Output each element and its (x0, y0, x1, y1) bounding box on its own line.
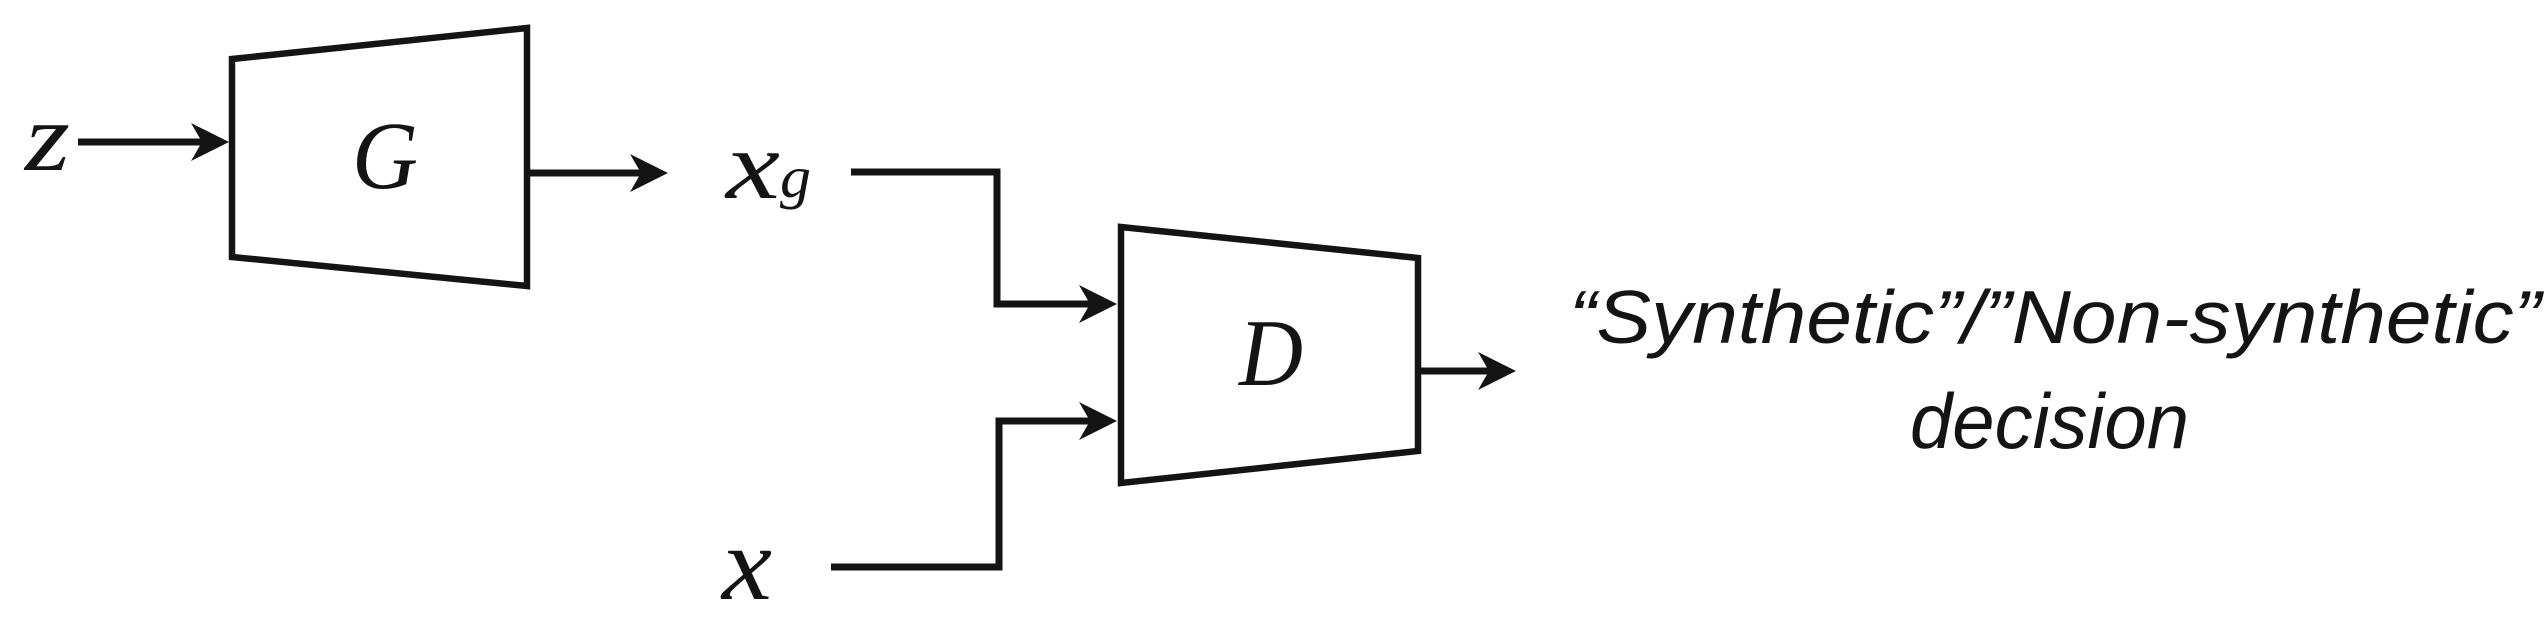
wire z to G (78, 139, 204, 146)
arrowhead into G (191, 123, 229, 161)
arrowhead D lower input (1079, 402, 1117, 440)
arrowhead D upper input (1079, 285, 1117, 323)
svg-text:x: x (720, 505, 772, 621)
svg-text:G: G (352, 102, 418, 209)
discriminator D trapezoid (1121, 227, 1418, 483)
wire D output (1421, 368, 1492, 375)
arrowhead G output (630, 154, 668, 192)
wire x_g to D upper input (851, 172, 1093, 304)
arrowhead D output (1478, 352, 1516, 390)
svg-text:“Synthetic”/”Non-synthetic”: “Synthetic”/”Non-synthetic” (1569, 275, 2544, 359)
svg-text:g: g (780, 144, 811, 210)
wire x to D lower input (831, 421, 1093, 567)
svg-text:D: D (1237, 300, 1303, 406)
svg-text:z: z (23, 84, 70, 191)
svg-text:decision: decision (1910, 377, 2189, 465)
svg-text:x: x (724, 112, 780, 220)
generator G trapezoid (232, 28, 527, 286)
wire G output (530, 170, 644, 177)
